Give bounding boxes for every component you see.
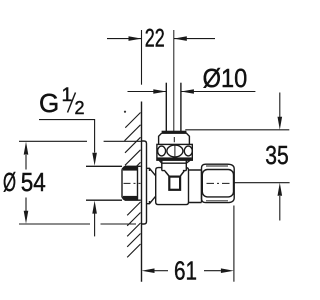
dimension Ø10 leader arrows: [128, 91, 256, 93]
knurl center ellipse: [167, 145, 183, 157]
svg-text:22: 22: [145, 24, 165, 52]
handle cap: [162, 131, 187, 134]
cone escutcheon to body: [147, 168, 156, 203]
outlet nut: [202, 164, 235, 202]
wall hatching lower: [127, 202, 140, 257]
svg-text:2: 2: [75, 98, 85, 118]
ring to bonnet chamfer: [159, 160, 190, 163]
dimension 61 extension line right: [233, 206, 235, 282]
dimension Ø54 extension lines: [19, 141, 142, 224]
dimension 61 line and arrows: [155, 270, 221, 272]
nut shading lines: [206, 166, 228, 201]
axis centerline horizontal: [124, 182, 141, 184]
G 1/2 leader: [39, 120, 95, 237]
bonnet: [162, 160, 187, 170]
wall: [141, 102, 143, 282]
knurl right ellipse: [184, 146, 192, 156]
dimension 35 arrows: [279, 93, 281, 221]
G1/2 thread body: [122, 166, 141, 200]
svg-text:61: 61: [174, 256, 197, 286]
svg-text:54: 54: [21, 169, 46, 197]
dimension 35 extension lines: [185, 130, 289, 183]
dimension 22 arrows: [107, 38, 215, 40]
dimension Ø54 line and arrows: [25, 155, 27, 211]
knurled ring: [157, 144, 192, 160]
svg-text:Ø: Ø: [3, 169, 16, 197]
nut facet band: [202, 170, 233, 197]
dimension 22 extension lines: [141, 30, 143, 85]
vertical pipe Ø10: [165, 83, 167, 131]
body block: [156, 168, 189, 205]
pipe centerline vertical: [173, 30, 175, 131]
escutcheon: [142, 141, 147, 224]
stem square: [165, 171, 184, 177]
svg-text:35: 35: [265, 140, 288, 170]
outlet cylinder: [189, 170, 202, 203]
svg-text:Ø10: Ø10: [203, 63, 248, 93]
svg-text:G: G: [39, 88, 59, 118]
knurl left ellipse: [158, 146, 166, 156]
wall hatching upper: [125, 113, 141, 167]
supply pipe G1/2 tail: [86, 165, 122, 167]
